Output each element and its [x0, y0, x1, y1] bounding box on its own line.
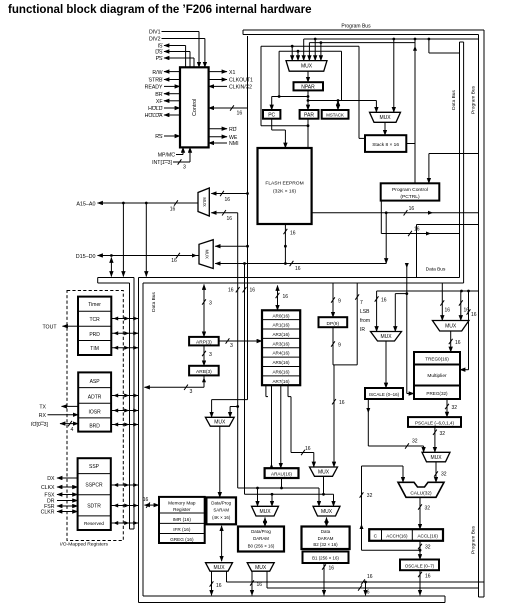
- svg-text:16: 16: [455, 340, 461, 346]
- svg-text:32: 32: [441, 472, 447, 478]
- wire B2 mux ins: [318, 488, 320, 506]
- svg-text:16: 16: [305, 446, 311, 452]
- svg-text:Data/Prog: Data/Prog: [251, 529, 271, 534]
- wire acc feedback bottom: [362, 549, 421, 551]
- PC: [263, 110, 280, 119]
- svg-text:16: 16: [257, 582, 263, 588]
- svg-text:B2 (32 × 16): B2 (32 × 16): [313, 542, 338, 547]
- svg-text:9: 9: [338, 299, 341, 305]
- left register channel (A): [98, 277, 134, 279]
- svg-text:CALU(32): CALU(32): [410, 491, 432, 497]
- svg-text:Stack 8 × 16: Stack 8 × 16: [372, 142, 399, 148]
- svg-text:MUX: MUX: [202, 197, 207, 207]
- svg-text:OSCALE (0–7): OSCALE (0–7): [405, 563, 435, 568]
- svg-text:(PCTRL): (PCTRL): [400, 194, 420, 200]
- svg-text:RX: RX: [39, 413, 47, 419]
- data bus (horizontal): [139, 277, 460, 279]
- svg-text:MUX: MUX: [301, 64, 313, 70]
- data bus (left channel + bottom): [138, 278, 140, 603]
- memory map register block: [159, 497, 205, 543]
- svg-text:GREG (16): GREG (16): [170, 537, 194, 542]
- svg-text:TIM: TIM: [90, 346, 99, 352]
- wire B0 mux ins: [256, 487, 259, 490]
- program control PCTRL: [381, 183, 440, 200]
- svg-text:SSP: SSP: [89, 464, 100, 470]
- svg-text:ARB(3): ARB(3): [196, 369, 212, 375]
- CALU alu shape: [398, 482, 444, 497]
- wire ARAU out: [281, 478, 283, 488]
- wire to multiplier right: [467, 290, 470, 293]
- OSCALE: [400, 560, 439, 571]
- svg-text:IR: IR: [360, 327, 365, 333]
- DAB line 1: [238, 487, 319, 489]
- svg-text:Program Control: Program Control: [392, 187, 428, 193]
- svg-text:AR3(16): AR3(16): [272, 341, 290, 346]
- wire saram mux to saram: [219, 426, 221, 497]
- wire ACC out: [419, 541, 421, 560]
- wire data bus top tap: [428, 38, 431, 41]
- pscale mux: [422, 452, 450, 462]
- svg-text:ADTR: ADTR: [88, 395, 102, 401]
- wire mux to ISCALE: [385, 341, 387, 388]
- svg-text:DARAM: DARAM: [318, 536, 334, 541]
- svg-text:DIV1: DIV1: [149, 30, 161, 36]
- wire mux to CALU right: [435, 462, 437, 483]
- svg-text:MUX: MUX: [321, 509, 333, 515]
- svg-text:16: 16: [283, 294, 289, 300]
- svg-text:HOLD: HOLD: [148, 106, 163, 112]
- svg-text:Program Bus: Program Bus: [471, 525, 477, 554]
- wire ARP to ARB: [203, 345, 205, 365]
- svg-text:NMI: NMI: [229, 141, 239, 147]
- program counter mux MUX1: [286, 61, 327, 72]
- svg-text:16: 16: [227, 216, 233, 222]
- ARB register: [189, 366, 219, 376]
- DAB line 2: [245, 493, 334, 495]
- wire B1 leg: [323, 563, 325, 596]
- wire flash data out: [284, 224, 286, 264]
- wire MUX1 to NPAR: [307, 71, 309, 82]
- wire saram mux legs: [211, 571, 213, 595]
- svg-text:B1 (256 × 16): B1 (256 × 16): [312, 556, 339, 561]
- svg-text:Reserved: Reserved: [84, 521, 104, 526]
- D15-D0 mux: [199, 240, 213, 269]
- svg-text:16: 16: [143, 497, 149, 503]
- svg-text:ARAU(16): ARAU(16): [271, 472, 292, 477]
- wire stack top of stack to MUX1 and PCTRL: [406, 143, 415, 145]
- svg-text:3: 3: [183, 165, 186, 171]
- SARAM: [206, 497, 236, 524]
- svg-text:DARAM: DARAM: [253, 536, 269, 541]
- wire ARAU mux out: [323, 476, 325, 494]
- wire ISCALE out to pscale mux: [367, 399, 369, 446]
- svg-text:Register: Register: [173, 507, 191, 512]
- svg-text:32: 32: [452, 405, 458, 411]
- svg-text:B0 (256 × 16): B0 (256 × 16): [248, 544, 275, 549]
- wire ARP to AR regs: [219, 340, 262, 342]
- svg-text:(4K × 16): (4K × 16): [212, 515, 231, 520]
- svg-text:AR6(16): AR6(16): [272, 369, 290, 374]
- svg-text:Data Bus: Data Bus: [451, 90, 457, 110]
- svg-text:from: from: [360, 318, 370, 324]
- wire program bus write path: [385, 213, 387, 264]
- MSTACK: [322, 110, 349, 119]
- stack 8x16: [365, 135, 406, 152]
- svg-text:MUX: MUX: [205, 249, 210, 259]
- svg-text:16: 16: [409, 206, 415, 212]
- svg-text:Memory Map: Memory Map: [168, 501, 196, 506]
- svg-text:16: 16: [414, 227, 420, 233]
- svg-text:ASP: ASP: [90, 379, 101, 385]
- saram mux: [205, 417, 234, 426]
- svg-text:X1: X1: [229, 70, 235, 76]
- wire mmr link: [145, 504, 160, 506]
- wire AR out legs: [271, 385, 273, 468]
- svg-text:A15–A0: A15–A0: [76, 202, 95, 208]
- SSP block: [78, 458, 111, 530]
- wire PAR loop to MUX1: [260, 46, 262, 126]
- svg-text:FLASH EEPROM: FLASH EEPROM: [265, 181, 303, 187]
- wire AR to ARAU mux: [287, 385, 289, 396]
- svg-text:IO[0–3]: IO[0–3]: [31, 422, 49, 428]
- svg-text:16: 16: [367, 574, 373, 580]
- wire program bus to PCTRL: [429, 153, 479, 155]
- svg-text:IFR (16): IFR (16): [173, 527, 191, 532]
- wire NPAR loop to MUX1: [278, 95, 281, 98]
- DP register: [319, 317, 348, 327]
- svg-text:CLKR: CLKR: [41, 510, 55, 516]
- svg-text:TOUT: TOUT: [42, 325, 57, 331]
- wire PAR out to PAB: [307, 119, 309, 213]
- svg-text:32: 32: [425, 506, 431, 512]
- PSCALE: [408, 417, 461, 427]
- wire bus to stack mux: [392, 38, 395, 41]
- svg-text:PC: PC: [268, 113, 275, 119]
- wire OSCALE out: [419, 570, 421, 595]
- program bus (right vertical): [483, 30, 485, 597]
- ASP bus links: [111, 395, 139, 397]
- svg-text:16: 16: [290, 231, 296, 237]
- wire data bus to DP: [332, 283, 334, 317]
- svg-text:D15–D0: D15–D0: [76, 254, 96, 260]
- svg-text:Program Bus: Program Bus: [341, 24, 371, 30]
- wire DP out: [332, 327, 334, 365]
- svg-text:16: 16: [329, 566, 335, 572]
- svg-text:(32K × 16): (32K × 16): [273, 189, 296, 195]
- stack mux: [370, 112, 401, 122]
- SSP bus links: [111, 484, 139, 486]
- svg-text:MUX: MUX: [318, 469, 330, 475]
- svg-text:TX: TX: [39, 405, 46, 411]
- svg-text:PSCALE (–6,0,1,4): PSCALE (–6,0,1,4): [415, 421, 455, 426]
- wire left data link: [145, 203, 147, 277]
- svg-text:4: 4: [71, 427, 74, 433]
- svg-text:16: 16: [339, 400, 345, 406]
- wire treg mux out: [450, 331, 452, 352]
- svg-text:AR1(16): AR1(16): [272, 323, 290, 328]
- wire saram mux inputs: [212, 399, 248, 401]
- wire PREG left arrow: [407, 393, 414, 395]
- wire PCTRL out to data bus: [380, 201, 382, 234]
- program bus (top horizontal): [243, 29, 484, 31]
- svg-text:ACCH(16): ACCH(16): [386, 534, 408, 539]
- svg-text:ISCALE (0–16): ISCALE (0–16): [369, 392, 400, 397]
- svg-text:MUX: MUX: [214, 420, 226, 426]
- svg-text:16: 16: [445, 308, 451, 314]
- wire D to data bus channel: [110, 258, 112, 277]
- flash data to D mux: [215, 263, 386, 265]
- svg-text:TREG0(16): TREG0(16): [425, 357, 449, 362]
- B0 bottom mux: [247, 563, 274, 572]
- svg-text:MUX: MUX: [379, 115, 391, 121]
- svg-text:DP(9): DP(9): [327, 321, 340, 327]
- svg-text:Program Bus: Program Bus: [471, 85, 477, 114]
- svg-text:3: 3: [190, 389, 193, 395]
- svg-text:AR4(16): AR4(16): [272, 351, 290, 356]
- svg-text:BRD: BRD: [89, 424, 100, 430]
- svg-text:TCR: TCR: [89, 317, 100, 323]
- svg-text:HOLDA: HOLDA: [145, 113, 163, 119]
- svg-text:MUX: MUX: [213, 565, 225, 571]
- wire pbus to A mux and D mux: [247, 36, 249, 400]
- wire to center mux left: [376, 291, 378, 332]
- svg-text:BR: BR: [155, 92, 162, 98]
- wire A to data bus channel: [122, 203, 124, 277]
- io mapped registers dashed box: [67, 291, 123, 541]
- svg-text:Data Bus: Data Bus: [151, 292, 157, 312]
- svg-text:AR5(16): AR5(16): [272, 360, 290, 365]
- wire V4: [244, 264, 246, 495]
- svg-text:16: 16: [237, 111, 243, 117]
- svg-text:DIV2: DIV2: [149, 37, 161, 43]
- saram bottom mux: [206, 563, 233, 572]
- svg-text:R/W: R/W: [152, 70, 162, 76]
- svg-text:PAR: PAR: [304, 113, 314, 119]
- svg-text:MUX: MUX: [380, 334, 392, 340]
- svg-text:PRD: PRD: [89, 332, 100, 338]
- wire CALU to ACC: [419, 497, 421, 529]
- svg-text:Timer: Timer: [88, 302, 101, 308]
- DARAM B2: [302, 527, 350, 550]
- svg-text:PREG(32): PREG(32): [426, 391, 448, 396]
- svg-text:16: 16: [216, 583, 222, 589]
- svg-text:AR2(16): AR2(16): [272, 332, 290, 337]
- svg-text:DS: DS: [155, 50, 163, 56]
- svg-text:RD: RD: [229, 127, 237, 133]
- wire NPAR to stack mux: [308, 100, 376, 102]
- svg-text:MUX: MUX: [255, 565, 267, 571]
- svg-text:3: 3: [209, 301, 212, 307]
- wire to center mux right: [406, 264, 408, 394]
- svg-text:SSPCR: SSPCR: [85, 483, 103, 489]
- svg-text:AR7(16): AR7(16): [272, 379, 290, 384]
- PREG register: [414, 386, 460, 400]
- wire B0 mux to B0: [264, 518, 266, 527]
- wire stack mux to stack: [384, 122, 386, 135]
- treg mux: [432, 321, 469, 332]
- PAB line from A mux: [211, 212, 237, 214]
- svg-text:NPAR: NPAR: [301, 85, 315, 91]
- svg-text:32: 32: [367, 493, 373, 499]
- svg-text:PS: PS: [156, 56, 163, 62]
- NPAR: [294, 82, 324, 90]
- AR0-AR7 register file: [262, 310, 300, 385]
- ASP block: [78, 372, 111, 431]
- ARAU: [265, 468, 299, 478]
- svg-text:3: 3: [230, 343, 233, 349]
- wire acc feedback to CALU left: [362, 465, 404, 467]
- timer block: [78, 297, 111, 355]
- TREG0 register: [414, 352, 460, 365]
- svg-text:functional block diagram of th: functional block diagram of the ’F206 in…: [8, 4, 312, 16]
- svg-text:32: 32: [412, 439, 418, 445]
- flash eeprom: [258, 148, 312, 224]
- svg-text:MUX: MUX: [259, 509, 271, 515]
- svg-text:CLKOUT1: CLKOUT1: [229, 78, 253, 84]
- accumulator: [369, 529, 443, 541]
- svg-text:DX: DX: [47, 476, 55, 482]
- svg-text:32: 32: [425, 545, 431, 551]
- svg-text:I/O-Mapped Registers: I/O-Mapped Registers: [60, 542, 108, 548]
- wire B2 mux to B2: [326, 518, 328, 527]
- wire data bus to ARP: [203, 285, 205, 337]
- multiplier: [414, 365, 460, 386]
- svg-text:ACCL(16): ACCL(16): [417, 534, 438, 539]
- wire PSCALE to mux: [434, 426, 436, 453]
- svg-text:16: 16: [295, 266, 301, 272]
- wire NPAR to PAR/PC: [307, 90, 309, 110]
- svg-text:XF: XF: [156, 99, 163, 105]
- svg-text:32: 32: [440, 431, 446, 437]
- 16-bit wire into control: [209, 107, 248, 109]
- data bus (right vertical): [459, 42, 461, 278]
- svg-text:ARP(3): ARP(3): [196, 339, 212, 345]
- timer bus links: [111, 318, 139, 320]
- svg-text:MP/MC: MP/MC: [158, 153, 176, 159]
- svg-text:16: 16: [225, 197, 231, 203]
- A15-A0 mux: [198, 188, 209, 216]
- svg-text:IMR (16): IMR (16): [173, 517, 192, 522]
- svg-text:Data Bus: Data Bus: [426, 267, 446, 273]
- wire PC out: [271, 119, 273, 130]
- svg-text:16: 16: [170, 207, 176, 213]
- wire PREG to PSCALE: [446, 399, 448, 417]
- B2 mux: [313, 506, 340, 516]
- ARP register: [189, 337, 219, 346]
- svg-text:MSTACK: MSTACK: [326, 113, 344, 118]
- svg-text:SDTR: SDTR: [87, 504, 101, 510]
- svg-text:SARAM: SARAM: [213, 508, 229, 513]
- B0 mux: [252, 506, 279, 516]
- PAB to program bus: [308, 212, 479, 214]
- svg-text:STRB: STRB: [149, 78, 163, 84]
- wire merged DP/IR down to ARAU mux: [333, 365, 335, 467]
- svg-text:7: 7: [360, 300, 363, 306]
- svg-text:Data: Data: [321, 529, 331, 534]
- wire B0 mux legs: [251, 571, 253, 595]
- wire drop to bottom bus: [364, 581, 367, 584]
- svg-text:Control: Control: [192, 99, 198, 116]
- svg-text:RS: RS: [155, 134, 163, 140]
- svg-text:CLKX: CLKX: [41, 485, 55, 491]
- svg-text:16: 16: [471, 312, 477, 318]
- svg-text:16: 16: [250, 288, 256, 294]
- 7 LSB from IR wire: [356, 283, 358, 365]
- svg-text:16: 16: [171, 258, 177, 264]
- svg-text:Multiplier: Multiplier: [427, 373, 447, 379]
- wire saram to bottom mux: [221, 526, 223, 561]
- svg-text:Data/Prog: Data/Prog: [211, 501, 231, 506]
- wire data bus to AR regs: [277, 286, 279, 311]
- svg-text:LSB: LSB: [360, 309, 370, 315]
- wire ARB link: [145, 386, 205, 388]
- svg-text:MUX: MUX: [430, 455, 442, 461]
- wire V3: [237, 213, 239, 488]
- wire PRDB line: [377, 290, 479, 292]
- DARAM B1: [303, 552, 349, 564]
- center scaling mux: [371, 332, 402, 342]
- svg-text:C: C: [374, 534, 378, 540]
- wire data bus to program bus: [416, 225, 418, 278]
- wire AR leg: [265, 385, 267, 396]
- wire MSTACK stub: [337, 101, 339, 111]
- svg-text:IOSR: IOSR: [88, 410, 101, 416]
- wire MSTACK stub dot: [337, 99, 340, 102]
- control block: [180, 67, 209, 147]
- svg-text:INT[1–3]: INT[1–3]: [152, 160, 172, 166]
- svg-text:CLKIN/X2: CLKIN/X2: [229, 85, 252, 91]
- svg-text:AR0(16): AR0(16): [272, 313, 290, 318]
- ARAU mux: [310, 467, 338, 476]
- svg-text:16: 16: [425, 574, 431, 580]
- wire treg mux inputs: [441, 283, 443, 321]
- ISCALE: [365, 388, 403, 399]
- DARAM B0: [238, 527, 284, 552]
- PAR: [300, 110, 319, 119]
- svg-text:16: 16: [381, 298, 387, 304]
- svg-text:3: 3: [209, 352, 212, 358]
- svg-text:9: 9: [338, 343, 341, 349]
- svg-text:READY: READY: [145, 85, 163, 91]
- svg-text:WE: WE: [229, 135, 238, 141]
- svg-text:16: 16: [364, 590, 370, 596]
- svg-text:16: 16: [228, 288, 234, 294]
- svg-text:MUX: MUX: [445, 324, 457, 330]
